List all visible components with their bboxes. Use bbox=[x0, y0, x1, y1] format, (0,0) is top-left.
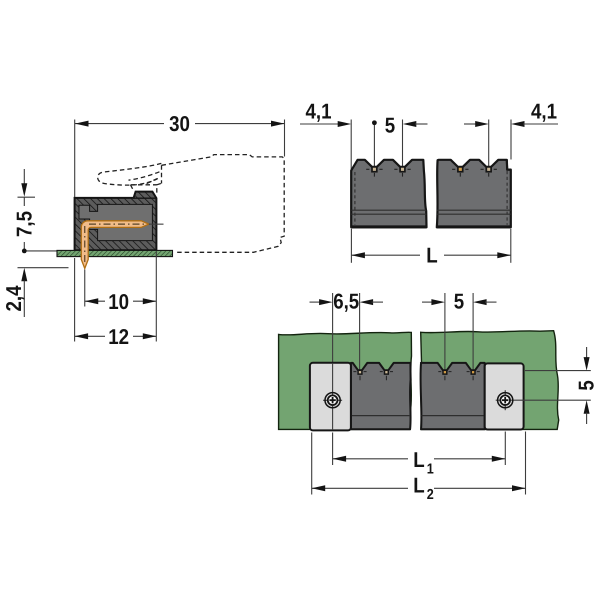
svg-text:L: L bbox=[413, 473, 424, 497]
wire extension line right (x=284.5) bbox=[284, 120, 286, 157]
end clamp plate right bbox=[485, 363, 524, 429]
screw symbol left bbox=[323, 363, 342, 430]
svg-text:5: 5 bbox=[454, 290, 464, 314]
pin contact (bent solder pin) bbox=[81, 221, 149, 269]
dimension 5 (top, right pair) bbox=[422, 290, 497, 314]
dimension 6,5 bbox=[310, 290, 384, 314]
PCB right piece (green, torn edges) bbox=[421, 331, 559, 430]
strip flange lines bbox=[352, 415, 411, 417]
mating plug dashed outline bbox=[98, 155, 285, 253]
screw symbol right bbox=[496, 390, 591, 410]
dimension 10 bbox=[85, 270, 157, 314]
svg-text:7,5: 7,5 bbox=[13, 211, 37, 237]
dimension L (front view) bbox=[351, 229, 510, 268]
dimension 2,4 bbox=[2, 268, 69, 317]
PCB (side view, hatched green strip) bbox=[57, 250, 173, 256]
dimension 30 bbox=[75, 112, 285, 136]
end clamp plate left bbox=[310, 363, 351, 431]
body horizontal flange lines bbox=[351, 209, 426, 211]
svg-text:1: 1 bbox=[427, 461, 434, 477]
header strip left segment (top view) bbox=[351, 363, 411, 429]
svg-text:4,1: 4,1 bbox=[531, 100, 557, 124]
slot centre marks (top view) bbox=[353, 372, 479, 381]
header strip right segment (top view) bbox=[421, 363, 485, 429]
svg-text:2: 2 bbox=[427, 487, 434, 503]
dimension 12 bbox=[75, 252, 157, 349]
slot centre marks bbox=[366, 169, 497, 176]
right segment corner step bbox=[507, 160, 511, 170]
header body right segment (front view) bbox=[437, 160, 511, 228]
wire extension lines above front view bbox=[350, 120, 352, 171]
node datum dot at PCB level bbox=[22, 249, 27, 254]
header body left segment (front view) bbox=[351, 160, 426, 228]
PCB left piece (green, torn edges) bbox=[279, 332, 412, 429]
dimension L2 bbox=[312, 432, 526, 503]
svg-text:L: L bbox=[413, 448, 424, 472]
dimension 4,1 right bbox=[511, 100, 558, 127]
svg-text:5: 5 bbox=[385, 113, 395, 137]
dimension 7,5 bbox=[13, 169, 37, 251]
dimension 5 (right side, vertical) bbox=[525, 347, 599, 424]
pin slot squares (front view) bbox=[372, 167, 377, 172]
svg-text:2,4: 2,4 bbox=[2, 285, 26, 311]
housing cavity (solid interior) bbox=[79, 204, 152, 240]
svg-text:30: 30 bbox=[169, 112, 190, 136]
svg-text:12: 12 bbox=[108, 325, 129, 349]
connector body cross-section (hatched housing) bbox=[75, 192, 157, 251]
dimension L1 bbox=[333, 432, 506, 478]
svg-text:4,1: 4,1 bbox=[305, 100, 331, 124]
svg-text:6,5: 6,5 bbox=[333, 290, 359, 314]
svg-text:L: L bbox=[426, 244, 437, 268]
wire pin axis centreline bbox=[149, 223, 164, 225]
hidden edge dashed lines bbox=[354, 172, 356, 225]
pitch continuation arrow on right segment bbox=[464, 121, 489, 127]
pin slot squares (top view) bbox=[358, 370, 362, 374]
svg-text:5: 5 bbox=[575, 380, 599, 390]
wire extension line left of body (x=74.7) bbox=[74, 120, 76, 198]
wire from datum dot to PCB bbox=[27, 250, 58, 252]
svg-text:10: 10 bbox=[108, 290, 129, 314]
dimension 5 pitch with datum dot bbox=[372, 113, 428, 166]
wire extension lines top dims bbox=[332, 293, 334, 363]
dimension 4,1 left bbox=[300, 100, 351, 127]
